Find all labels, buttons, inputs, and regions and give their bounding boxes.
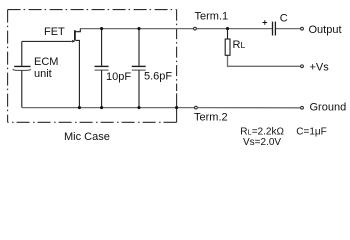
junction: case to ground bus — [175, 106, 178, 109]
svg-text:Ground: Ground — [310, 102, 347, 114]
svg-text:Output: Output — [309, 24, 342, 36]
capacitor 10pF — [95, 29, 109, 108]
svg-text:Term.1: Term.1 — [195, 11, 229, 23]
svg-text:FET: FET — [44, 26, 65, 38]
drain lead — [76, 29, 81, 32]
svg-text:C=1μF: C=1μF — [296, 126, 327, 137]
svg-text:C: C — [280, 13, 288, 25]
junction: drain rail at 10pF — [100, 27, 103, 30]
resistor RL — [225, 29, 230, 56]
svg-text:Term.2: Term.2 — [194, 112, 228, 124]
terminal +Vs — [301, 65, 304, 68]
svg-text:5.6pF: 5.6pF — [144, 71, 172, 83]
svg-text:unit: unit — [34, 68, 52, 80]
svg-text:Vs=2.0V: Vs=2.0V — [243, 137, 281, 148]
svg-text:Mic Case: Mic Case — [64, 131, 110, 143]
svg-text:ECM: ECM — [34, 56, 58, 68]
svg-text:+Vs: +Vs — [310, 61, 330, 73]
polarity + of C — [263, 20, 268, 25]
wire: top rail (FET drain to Term.1 and RL/C to Output) — [80, 28, 300, 30]
svg-text:RL=2.2kΩ: RL=2.2kΩ — [240, 126, 284, 137]
svg-text:RL: RL — [233, 39, 246, 51]
junction: drain rail at 5.6pF — [137, 27, 140, 30]
wire: gate wire from electret to FET — [22, 40, 72, 42]
electret capacitor of ECM unit — [13, 41, 31, 107]
terminal Term.2 — [195, 106, 198, 109]
capacitor C (electrolytic, output coupling) — [273, 22, 276, 36]
transistor FET (JFET in ECM unit) — [72, 29, 80, 108]
junction: source at bus — [78, 106, 81, 109]
svg-text:10pF: 10pF — [106, 71, 131, 83]
wire: +Vs wire from RL bottom — [228, 55, 301, 66]
junction: 10pF at bus — [100, 106, 103, 109]
capacitor 5.6pF — [132, 29, 146, 108]
mic case dash-dot border — [8, 10, 177, 123]
junction: 5.6pF at bus — [137, 106, 140, 109]
source lead — [76, 40, 80, 107]
wire: ground bus rail — [22, 107, 300, 109]
channel bar — [74, 30, 76, 40]
terminal Term.1 — [194, 27, 197, 30]
terminal Output — [301, 27, 304, 30]
terminal Ground — [301, 106, 304, 109]
gate arrow — [72, 40, 75, 43]
junction: RL top on rail — [226, 27, 229, 30]
